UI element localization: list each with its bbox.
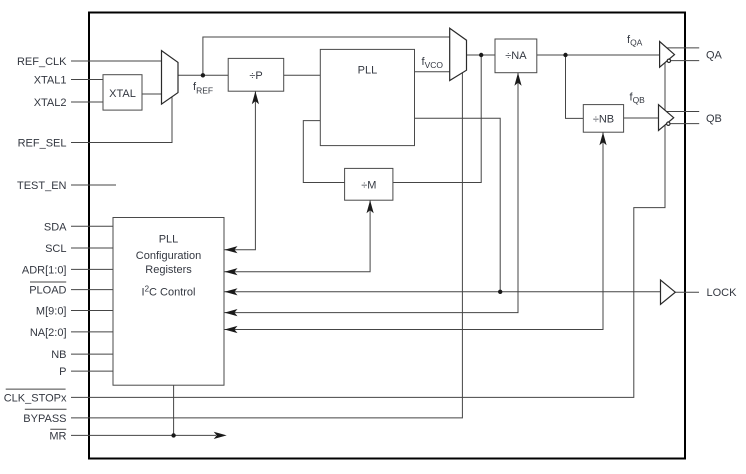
- divider NA block: [495, 39, 537, 73]
- svg-text:BYPASS: BYPASS: [23, 413, 66, 425]
- wire ADR[1:0] to config registers: [71, 268, 113, 270]
- wire bypass mux output to divider NA: [467, 54, 496, 56]
- svg-text:ADR[1:0]: ADR[1:0]: [22, 264, 67, 276]
- svg-text:Configuration: Configuration: [136, 250, 201, 262]
- wire divider P output to PLL: [284, 74, 321, 76]
- svg-text:QB: QB: [706, 113, 722, 125]
- svg-text:LOCK: LOCK: [707, 287, 738, 299]
- wire QB buffer lower inverted output: [670, 123, 699, 125]
- wire PLL fVCO output to bypass mux: [415, 71, 450, 73]
- wire MR input with distribution arrow: [71, 434, 216, 436]
- divider P block: [228, 58, 284, 91]
- arrowhead into divider NB: [599, 132, 606, 145]
- PLL block U1: [320, 49, 414, 145]
- svg-text:SCL: SCL: [45, 243, 66, 255]
- svg-text:XTAL1: XTAL1: [34, 75, 67, 87]
- wire XTAL2 input to XTAL block: [71, 101, 103, 103]
- arrowhead config row 4: [225, 309, 238, 316]
- wire lock row to config registers and LOCK buffer: [225, 291, 661, 293]
- svg-text:REF_SEL: REF_SEL: [18, 138, 67, 150]
- svg-text:TEST_EN: TEST_EN: [17, 180, 67, 192]
- outer block border: [89, 13, 685, 459]
- divider M block: [345, 168, 393, 200]
- PLL bypass mux: [450, 28, 467, 80]
- PLL configuration registers block: [113, 218, 224, 386]
- wire divider P control from config registers: [225, 91, 256, 250]
- svg-text:M[9:0]: M[9:0]: [36, 306, 67, 318]
- wire TEST_EN stub: [71, 184, 116, 186]
- QB output buffer: [659, 105, 674, 131]
- svg-text:NA[2:0]: NA[2:0]: [30, 327, 67, 339]
- QA inverting output bubble: [667, 59, 670, 62]
- wire fREF feed-forward to bypass mux: [203, 37, 450, 75]
- wire divider M control from config registers: [225, 200, 371, 272]
- svg-text:QA: QA: [706, 50, 723, 62]
- QA output buffer: [660, 42, 675, 68]
- wire divider NA control from config registers: [225, 73, 519, 313]
- svg-text:XTAL: XTAL: [109, 88, 136, 100]
- svg-text:÷P: ÷P: [249, 70, 262, 82]
- svg-text:REF_CLK: REF_CLK: [17, 56, 67, 68]
- wire MR branch up into config registers: [173, 385, 175, 435]
- reference mux (REF_CLK / XTAL): [162, 51, 179, 105]
- divider NB block: [583, 105, 623, 133]
- wire SDA to config registers: [71, 225, 113, 227]
- wire QA buffer lower inverted output: [671, 60, 700, 62]
- wire NA[2:0] to config registers: [71, 331, 113, 333]
- svg-text:CLK_STOPx: CLK_STOPx: [4, 392, 67, 404]
- arrowhead config row 5: [225, 326, 238, 333]
- block XTAL oscillator: [103, 75, 142, 110]
- wire reference mux output to divider P (fREF node): [178, 74, 228, 76]
- wire XTAL1 input to XTAL block: [71, 79, 103, 81]
- svg-text:÷M: ÷M: [361, 179, 376, 191]
- wire branch down to divider NB input: [566, 55, 584, 118]
- wire fVCO node down to divider M input: [393, 55, 481, 183]
- wire PLL lock status down to lock node: [415, 118, 501, 292]
- node MR branch junction: [171, 433, 175, 437]
- wire divider NB output to QB buffer: [624, 117, 659, 119]
- svg-text:MR: MR: [49, 430, 66, 442]
- arrowhead config row 3: [225, 288, 238, 295]
- svg-text:NB: NB: [51, 349, 66, 361]
- wire PLOAD to config registers: [71, 289, 113, 291]
- svg-text:PLL: PLL: [159, 234, 179, 246]
- svg-text:÷NA: ÷NA: [505, 50, 527, 62]
- svg-text:÷NB: ÷NB: [593, 113, 614, 125]
- QB inverting output bubble: [667, 122, 670, 125]
- svg-text:SDA: SDA: [44, 221, 67, 233]
- wire REF_CLK input to reference mux: [71, 60, 162, 62]
- arrowhead config row 2: [225, 268, 238, 275]
- wire divider NA output to QA buffer: [537, 54, 660, 56]
- wire divider M output to PLL feedback input: [303, 121, 344, 183]
- arrowhead into divider P: [252, 91, 259, 104]
- svg-text:PLL: PLL: [358, 65, 378, 77]
- svg-text:XTAL2: XTAL2: [34, 97, 67, 109]
- node fVCO junction: [479, 53, 483, 57]
- svg-text:I2C Control: I2C Control: [142, 285, 196, 299]
- wire LOCK buffer output: [675, 291, 699, 293]
- wire BYPASS to PLL bypass mux select: [71, 73, 462, 418]
- wire REF_SEL to reference mux select: [71, 97, 172, 143]
- wire P to config registers: [71, 370, 113, 372]
- svg-text:P: P: [59, 366, 66, 378]
- wire QA buffer upper output: [667, 47, 699, 49]
- arrowhead config row 1: [225, 246, 238, 253]
- wire XTAL output to reference mux: [142, 93, 162, 95]
- svg-text:Registers: Registers: [145, 264, 192, 276]
- arrowhead into divider NA: [514, 73, 521, 86]
- arrowhead MR distribution: [214, 432, 227, 439]
- wire SCL to config registers: [71, 247, 113, 249]
- LOCK output buffer: [661, 280, 676, 304]
- wire M[9:0] to config registers: [71, 310, 113, 312]
- svg-text:PLOAD: PLOAD: [29, 285, 66, 297]
- node QA/QB branch junction: [563, 53, 567, 57]
- wire QB buffer upper output: [666, 111, 699, 113]
- arrowhead into divider M: [367, 200, 374, 213]
- node fREF junction: [201, 73, 205, 77]
- node lock row junction: [498, 290, 502, 294]
- wire divider NB control from config registers: [225, 132, 604, 329]
- wire NB to config registers: [71, 353, 113, 355]
- wire CLK_STOPx to output buffer enables: [71, 56, 665, 397]
